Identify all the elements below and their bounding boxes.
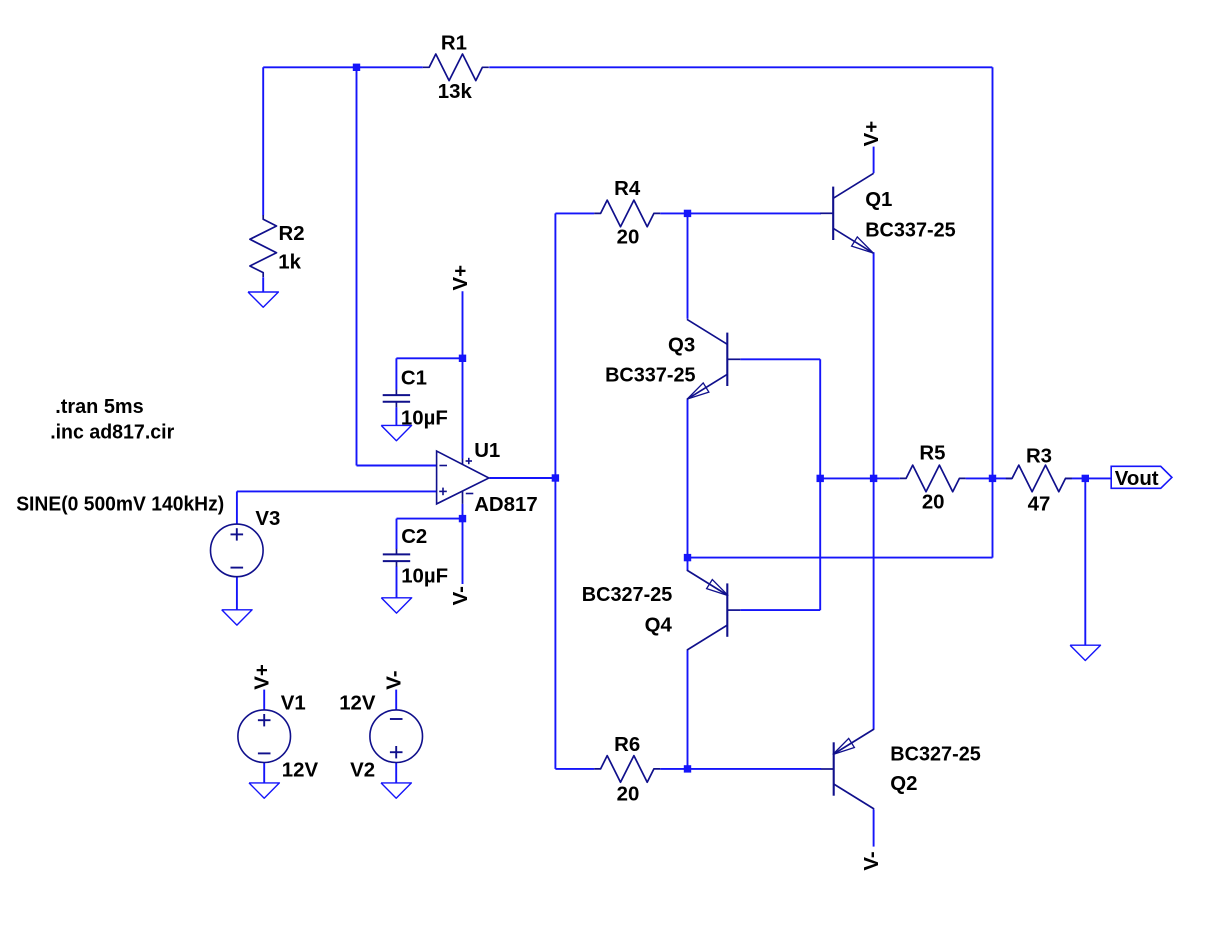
svg-text:AD817: AD817	[474, 494, 537, 516]
svg-text:10µF: 10µF	[401, 408, 448, 430]
svg-text:BC337-25: BC337-25	[865, 219, 956, 241]
svg-text:20: 20	[617, 784, 640, 806]
svg-text:V2: V2	[350, 760, 375, 782]
svg-text:R5: R5	[919, 443, 945, 465]
svg-text:Vout: Vout	[1115, 468, 1159, 490]
svg-text:U1: U1	[474, 440, 500, 462]
svg-text:1k: 1k	[278, 252, 301, 274]
svg-text:.tran 5ms: .tran 5ms	[55, 396, 144, 418]
svg-text:C2: C2	[401, 526, 427, 548]
svg-text:.inc ad817.cir: .inc ad817.cir	[50, 421, 174, 443]
svg-text:Q4: Q4	[645, 615, 673, 637]
svg-text:20: 20	[922, 492, 945, 514]
svg-text:V+: V+	[861, 121, 883, 147]
svg-text:C1: C1	[401, 368, 427, 390]
svg-text:V-: V-	[384, 670, 406, 689]
svg-text:V1: V1	[281, 693, 306, 715]
svg-text:V+: V+	[450, 265, 472, 291]
svg-text:10µF: 10µF	[401, 566, 448, 588]
svg-text:R3: R3	[1026, 445, 1052, 467]
svg-text:BC337-25: BC337-25	[605, 365, 696, 387]
svg-text:12V: 12V	[339, 693, 376, 715]
svg-text:R6: R6	[614, 734, 640, 756]
svg-text:47: 47	[1028, 493, 1051, 515]
svg-text:BC327-25: BC327-25	[890, 743, 981, 765]
svg-text:R4: R4	[614, 178, 641, 200]
svg-text:SINE(0 500mV 140kHz): SINE(0 500mV 140kHz)	[16, 493, 224, 515]
svg-text:V-: V-	[861, 851, 883, 870]
svg-text:Q1: Q1	[865, 189, 892, 211]
svg-text:V3: V3	[255, 508, 280, 530]
svg-text:13k: 13k	[438, 81, 473, 103]
svg-text:R2: R2	[279, 223, 305, 245]
svg-text:V+: V+	[252, 664, 274, 690]
svg-text:R1: R1	[441, 33, 467, 55]
svg-text:Q3: Q3	[668, 335, 695, 357]
svg-text:V-: V-	[450, 586, 472, 605]
svg-text:12V: 12V	[282, 760, 319, 782]
svg-text:Q2: Q2	[890, 773, 917, 795]
svg-text:20: 20	[617, 227, 640, 249]
svg-text:BC327-25: BC327-25	[582, 584, 673, 606]
